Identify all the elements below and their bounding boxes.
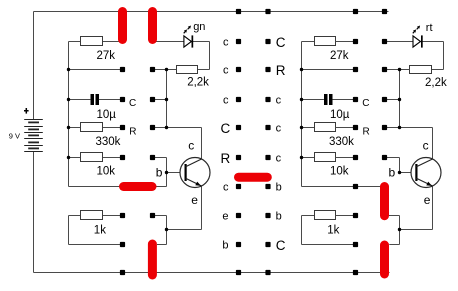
svg-text:gn: gn xyxy=(193,21,205,33)
svg-text:c: c xyxy=(188,139,194,153)
svg-text:c: c xyxy=(276,94,282,106)
svg-text:27k: 27k xyxy=(97,50,116,62)
svg-text:10µ: 10µ xyxy=(97,109,117,121)
svg-text:330k: 330k xyxy=(329,136,354,148)
svg-text:R: R xyxy=(363,127,370,138)
svg-text:1k: 1k xyxy=(94,224,106,236)
svg-text:C: C xyxy=(276,35,286,50)
svg-text:rt: rt xyxy=(426,22,433,34)
svg-text:R: R xyxy=(221,151,231,166)
svg-text:c: c xyxy=(223,94,229,106)
svg-text:2,2k: 2,2k xyxy=(187,76,209,88)
svg-text:c: c xyxy=(276,122,282,134)
svg-text:330k: 330k xyxy=(96,136,121,148)
svg-text:10µ: 10µ xyxy=(330,109,350,121)
svg-text:R: R xyxy=(129,127,136,138)
svg-text:c: c xyxy=(276,152,282,164)
svg-text:c: c xyxy=(223,181,229,193)
svg-text:c: c xyxy=(423,139,429,153)
svg-text:10k: 10k xyxy=(330,166,349,178)
svg-text:e: e xyxy=(222,210,228,222)
svg-text:9 V: 9 V xyxy=(9,132,20,141)
svg-text:c: c xyxy=(223,64,229,76)
svg-text:C: C xyxy=(276,238,286,253)
svg-text:2,2k: 2,2k xyxy=(425,77,447,89)
svg-text:1k: 1k xyxy=(327,224,339,236)
svg-text:C: C xyxy=(221,121,231,136)
svg-text:R: R xyxy=(276,63,286,78)
svg-text:10k: 10k xyxy=(97,166,116,178)
svg-text:b: b xyxy=(222,239,228,251)
svg-text:b: b xyxy=(389,166,396,180)
svg-text:e: e xyxy=(191,193,198,207)
svg-text:b: b xyxy=(276,210,282,222)
svg-text:C: C xyxy=(362,98,369,109)
svg-text:e: e xyxy=(424,193,431,207)
svg-text:b: b xyxy=(276,181,282,193)
svg-text:C: C xyxy=(129,98,136,109)
svg-text:27k: 27k xyxy=(330,50,349,62)
svg-text:c: c xyxy=(223,36,229,48)
svg-text:b: b xyxy=(156,166,163,180)
